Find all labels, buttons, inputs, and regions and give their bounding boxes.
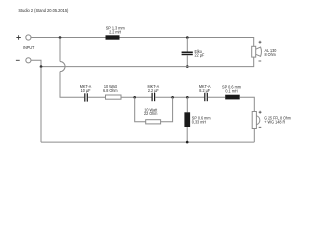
resistor R2 22 Ohm (146, 120, 161, 124)
wire shunt drop (186, 97, 188, 112)
svg-text:10 µF: 10 µF (81, 88, 91, 93)
input terminal - (26, 58, 31, 63)
node top junction (59, 36, 62, 39)
capacitor C3 2.2uF MKT-A (152, 93, 153, 101)
wire woofer return (41, 57, 254, 67)
wire input minus (31, 60, 41, 66)
wire bottom rail (41, 141, 254, 143)
svg-text:6.8 Ohm: 6.8 Ohm (103, 88, 118, 93)
capacitor C2 10uF MKT-A (84, 93, 85, 101)
wire l2 to tweeter (240, 97, 255, 111)
tweeter - symbol (259, 126, 262, 128)
capacitor Elko 22uF (182, 52, 193, 54)
wire branch up right (161, 97, 173, 122)
wire c2 to r1 (88, 96, 105, 98)
svg-text:8 Ohm: 8 Ohm (265, 52, 276, 57)
inductor L3 0.33mH (184, 112, 190, 127)
wire tweeter feed drop with hop (59, 38, 61, 62)
wire tweeter to rail (253, 129, 255, 143)
node branch right (171, 96, 174, 99)
resistor R1 6.8 Ohm (106, 95, 122, 99)
svg-text:2.2 µF: 2.2 µF (148, 88, 159, 93)
wire elko bottom (186, 55, 188, 66)
svg-text:2.2 mH: 2.2 mH (109, 29, 121, 34)
AL130 - symbol (259, 60, 262, 62)
svg-text:22 µF: 22 µF (195, 53, 205, 58)
wire top rail right (120, 38, 254, 47)
wire hop over return (60, 62, 65, 72)
AL130 + symbol (259, 41, 262, 44)
node branch left (133, 96, 136, 99)
inductor L1 2.2mH (106, 35, 120, 39)
node shunt bottom (186, 141, 189, 144)
node elko bottom (186, 65, 189, 68)
wire top rail left (31, 37, 106, 39)
wire branch down left (135, 97, 146, 122)
wire gnd drop (40, 67, 42, 143)
svg-text:Studio 2 (Stand 20.05.2015): Studio 2 (Stand 20.05.2015) (18, 8, 68, 13)
wire c3 to c4 (155, 96, 204, 98)
input + symbol (16, 35, 20, 39)
svg-text:INPUT: INPUT (23, 45, 34, 50)
node elko top (186, 36, 189, 39)
wire elko drop (186, 38, 188, 52)
node shunt top (186, 96, 189, 99)
input - symbol (16, 59, 20, 61)
svg-text:8.2 µF: 8.2 µF (199, 88, 210, 93)
svg-text:+ WG 148 R: + WG 148 R (264, 119, 285, 124)
svg-text:0.1 mH: 0.1 mH (225, 88, 237, 93)
svg-text:22 Ohm: 22 Ohm (144, 111, 157, 116)
tweeter + symbol (259, 111, 262, 114)
input terminal + (26, 35, 31, 40)
speaker G25 FFL tweeter (252, 112, 256, 129)
wire r1 to c3 (121, 96, 152, 98)
inductor L2 0.1mH (225, 95, 240, 100)
node input gnd (40, 65, 43, 68)
wire c4 to l2 (208, 96, 225, 98)
wire shunt to rail (186, 127, 188, 142)
svg-text:0,33 mH: 0,33 mH (192, 119, 206, 124)
speaker AL 130 (252, 46, 256, 57)
capacitor C4 8.2uF MKT-A (204, 93, 205, 101)
